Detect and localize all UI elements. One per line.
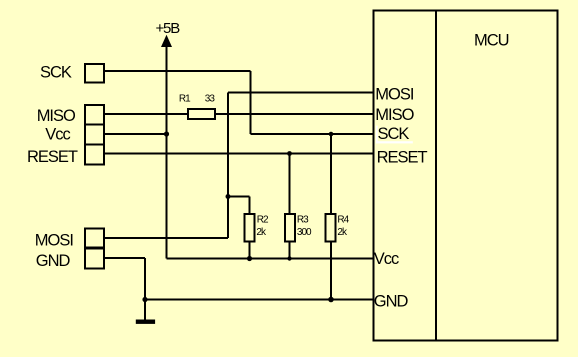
- wire R4 bottom lead: [330, 242, 332, 299]
- resistor R1: [188, 109, 215, 119]
- wire R3 bottom lead: [289, 242, 291, 258]
- svg-text:Vcc: Vcc: [374, 250, 399, 268]
- wire MISO from R1 to MCU: [216, 113, 373, 115]
- wire SCK horizontal from connector: [104, 70, 251, 72]
- svg-text:MCU: MCU: [474, 31, 509, 49]
- svg-text:Vcc: Vcc: [45, 126, 70, 144]
- svg-text:RESET: RESET: [27, 148, 78, 166]
- svg-text:33: 33: [205, 94, 216, 105]
- svg-text:300: 300: [297, 227, 312, 238]
- wire GND drop to ground: [144, 258, 146, 321]
- svg-text:+5B: +5B: [156, 20, 181, 37]
- wire R3 top lead: [289, 154, 291, 214]
- wire RESET from connector to MCU: [104, 153, 373, 155]
- svg-text:SCK: SCK: [40, 64, 72, 82]
- svg-text:SCK: SCK: [378, 125, 410, 143]
- wire MISO from connector to R1: [104, 113, 187, 115]
- svg-text:MISO: MISO: [375, 106, 414, 124]
- junction Vcc connector to +5V rail: [164, 131, 169, 136]
- junction R3 to Vcc rail: [287, 256, 291, 260]
- connector pin Vcc box: [85, 124, 104, 144]
- svg-text:R2: R2: [257, 215, 269, 226]
- wire GND rail to MCU: [145, 299, 373, 301]
- junction R2 to Vcc rail: [247, 256, 252, 261]
- MCU box: [373, 11, 557, 341]
- svg-text:2k: 2k: [337, 227, 348, 238]
- MCU pin SCK white highlight: [376, 126, 378, 144]
- svg-text:R3: R3: [297, 215, 309, 226]
- connector pin GND box: [85, 248, 104, 268]
- connector pin MOSI box: [85, 228, 104, 247]
- wire SCK vertical: [250, 71, 252, 134]
- wire Vcc from connector: [104, 133, 167, 135]
- resistor R4: [326, 214, 336, 242]
- svg-text:GND: GND: [36, 252, 71, 270]
- junction R4 to SCK line: [329, 132, 334, 137]
- MCU box divider: [435, 11, 437, 341]
- ground symbol: [136, 320, 155, 324]
- connector pin RESET box: [85, 144, 104, 164]
- connector pin SCK box: [85, 64, 104, 83]
- junction R3 to RESET line: [287, 151, 292, 156]
- svg-text:MISO: MISO: [37, 107, 76, 125]
- resistor R2: [245, 214, 255, 242]
- svg-text:R4: R4: [337, 215, 349, 226]
- junction R4 to GND rail: [328, 297, 334, 303]
- svg-text:GND: GND: [374, 293, 409, 311]
- wire R2 top lead horizontal: [228, 196, 250, 198]
- svg-text:MOSI: MOSI: [375, 85, 414, 103]
- junction GND drop to GND rail: [142, 297, 147, 302]
- wire MOSI horizontal to MCU: [228, 92, 373, 94]
- wire R2 top lead vertical: [249, 197, 251, 215]
- junction R2 lead to MOSI line: [226, 194, 231, 199]
- wire +5V vertical: [166, 45, 168, 259]
- svg-text:2k: 2k: [256, 227, 267, 238]
- connector pin MISO box: [85, 105, 104, 124]
- wire R2 bottom lead: [249, 242, 251, 258]
- wire SCK horizontal to MCU: [251, 133, 374, 135]
- svg-text:RESET: RESET: [377, 148, 428, 166]
- svg-text:R1: R1: [179, 94, 191, 105]
- svg-text:MOSI: MOSI: [35, 231, 74, 249]
- resistor R3: [285, 214, 295, 242]
- power arrow +5V: [161, 35, 172, 47]
- wire Vcc rail horizontal to MCU Vcc: [167, 258, 374, 260]
- wire R4 top lead: [330, 134, 332, 213]
- wire GND from connector: [104, 257, 145, 259]
- wire MOSI from connector: [104, 237, 228, 239]
- wire MOSI vertical: [227, 93, 229, 239]
